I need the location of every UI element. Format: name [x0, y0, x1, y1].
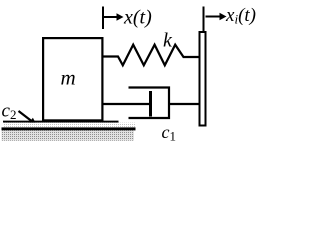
svg-text:x(t): x(t) — [123, 7, 152, 29]
svg-text:m: m — [61, 66, 76, 90]
svg-text:xi(t): xi(t) — [225, 5, 256, 27]
svg-text:c2: c2 — [2, 100, 17, 122]
svg-text:c1: c1 — [162, 122, 177, 144]
svg-text:k: k — [163, 30, 173, 52]
